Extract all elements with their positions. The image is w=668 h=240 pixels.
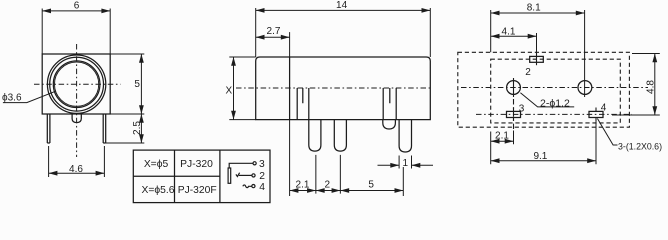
svg-text:2: 2	[325, 179, 331, 190]
svg-text:X: X	[225, 85, 232, 96]
svg-text:PJ-320F: PJ-320F	[178, 185, 217, 196]
svg-text:14: 14	[336, 0, 348, 11]
svg-text:3: 3	[519, 103, 525, 114]
svg-text:6: 6	[74, 1, 80, 12]
svg-text:2: 2	[259, 171, 265, 182]
svg-text:2.7: 2.7	[267, 26, 281, 37]
svg-text:2.1: 2.1	[296, 179, 310, 190]
svg-text:8.1: 8.1	[527, 3, 541, 14]
svg-text:X=ϕ5.6: X=ϕ5.6	[142, 185, 175, 196]
svg-text:5: 5	[368, 179, 374, 190]
svg-text:4: 4	[259, 182, 265, 193]
svg-text:ϕ3.6: ϕ3.6	[2, 93, 22, 104]
svg-text:PJ-320: PJ-320	[180, 159, 213, 170]
svg-text:4.6: 4.6	[69, 164, 83, 175]
svg-text:2.5: 2.5	[132, 121, 143, 135]
svg-text:4.8: 4.8	[646, 80, 657, 94]
svg-text:2-ϕ1.2: 2-ϕ1.2	[540, 97, 570, 109]
svg-text:5: 5	[134, 79, 140, 90]
svg-text:X=ϕ5: X=ϕ5	[144, 159, 169, 170]
svg-text:3-(1.2X0.6): 3-(1.2X0.6)	[618, 142, 662, 152]
svg-text:9.1: 9.1	[533, 151, 547, 162]
svg-text:2.1: 2.1	[495, 130, 509, 141]
svg-text:2: 2	[525, 67, 531, 78]
svg-text:3: 3	[259, 159, 265, 170]
svg-text:1: 1	[403, 158, 409, 169]
svg-text:4: 4	[601, 102, 607, 113]
svg-text:4.1: 4.1	[502, 26, 516, 37]
